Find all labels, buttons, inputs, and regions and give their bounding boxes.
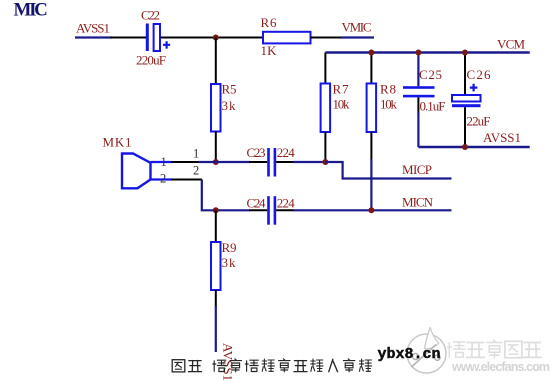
svg-text:AVSS1: AVSS1 <box>221 343 236 381</box>
resistor R6 <box>263 32 311 44</box>
wire C24 right pin <box>276 209 294 211</box>
watermark logo circle ybx8 <box>407 328 446 374</box>
node R9 junction <box>213 207 219 213</box>
svg-text:C26: C26 <box>467 67 492 82</box>
svg-text:C24: C24 <box>247 195 267 210</box>
wire VMIC stub <box>341 36 374 38</box>
wire MICN rail <box>293 209 452 211</box>
capacitor C23 <box>267 148 276 177</box>
svg-text:10k: 10k <box>333 97 351 112</box>
wire C23 right pin <box>276 161 294 163</box>
svg-text:224: 224 <box>277 195 296 210</box>
svg-text:10k: 10k <box>380 97 398 112</box>
svg-text:R5: R5 <box>222 82 237 97</box>
svg-text:3k: 3k <box>222 98 237 113</box>
wire C23 to R7 node <box>293 161 325 163</box>
svg-text:C25: C25 <box>419 67 442 82</box>
svg-text:R8: R8 <box>380 82 396 97</box>
wire MICP jog <box>325 162 451 179</box>
svg-text:AVSS1: AVSS1 <box>483 130 521 145</box>
node MICP junction <box>322 159 328 165</box>
svg-text:0.1uF: 0.1uF <box>420 99 446 114</box>
capacitor C25 <box>403 53 435 148</box>
svg-text:R7: R7 <box>333 82 350 97</box>
capacitor C24 <box>267 196 276 225</box>
svg-text:1K: 1K <box>261 43 278 58</box>
svg-text:1: 1 <box>161 155 167 169</box>
node pin1 junction <box>213 159 219 165</box>
svg-text:1: 1 <box>193 147 199 161</box>
watermark text dianzifashaoyou <box>448 340 541 358</box>
svg-text:VMIC: VMIC <box>342 19 372 34</box>
wire pin1 to junction <box>171 161 200 163</box>
wire pin2 to jog <box>171 179 202 181</box>
wire VCM rail <box>325 51 529 53</box>
svg-text:www.elecfans.com: www.elecfans.com <box>451 360 550 374</box>
svg-text:VCM: VCM <box>497 37 525 52</box>
wire C22 right pin to R6 <box>161 37 264 39</box>
node C26 bottom <box>462 144 468 150</box>
svg-text:220uF: 220uF <box>136 53 166 68</box>
svg-text:2: 2 <box>160 172 166 186</box>
wire to C24 left pin <box>249 209 267 211</box>
svg-text:2: 2 <box>193 164 199 178</box>
svg-text:C23: C23 <box>247 145 266 160</box>
svg-text:C22: C22 <box>141 8 160 23</box>
svg-text:R9: R9 <box>222 240 237 255</box>
capacitor C22 <box>146 24 170 52</box>
wire junction to C23 <box>199 161 251 163</box>
capacitor C26 <box>452 53 481 148</box>
svg-text:MK1: MK1 <box>103 135 132 150</box>
microphone MK1 <box>122 154 172 189</box>
node C25 top <box>415 50 421 56</box>
resistor R8 <box>367 53 377 211</box>
node R8 bottom <box>368 207 374 213</box>
node R8 top <box>368 50 374 56</box>
resistor R9 <box>211 210 221 352</box>
wire pin2 jog down <box>202 180 250 211</box>
node junction top <box>213 35 219 41</box>
svg-text:R6: R6 <box>261 15 278 30</box>
node C26 top <box>462 50 468 56</box>
resistor R5 <box>211 38 221 163</box>
svg-text:22uF: 22uF <box>467 114 491 129</box>
svg-text:224: 224 <box>277 145 296 160</box>
svg-text:3k: 3k <box>222 255 237 270</box>
svg-text:MICN: MICN <box>402 194 434 209</box>
wire AVSS1 stub <box>75 36 112 38</box>
svg-text:ybx8.cn: ybx8.cn <box>378 346 441 363</box>
wire R6 right pin <box>311 37 343 39</box>
svg-text:MICP: MICP <box>402 162 432 177</box>
svg-text:AVSS1: AVSS1 <box>76 21 110 36</box>
resistor R7 <box>321 53 331 163</box>
wire to C22 left pin <box>110 37 146 39</box>
svg-text:MIC: MIC <box>14 0 48 21</box>
wire AVSS1 bottom rail <box>418 146 529 148</box>
caption <box>172 359 371 372</box>
